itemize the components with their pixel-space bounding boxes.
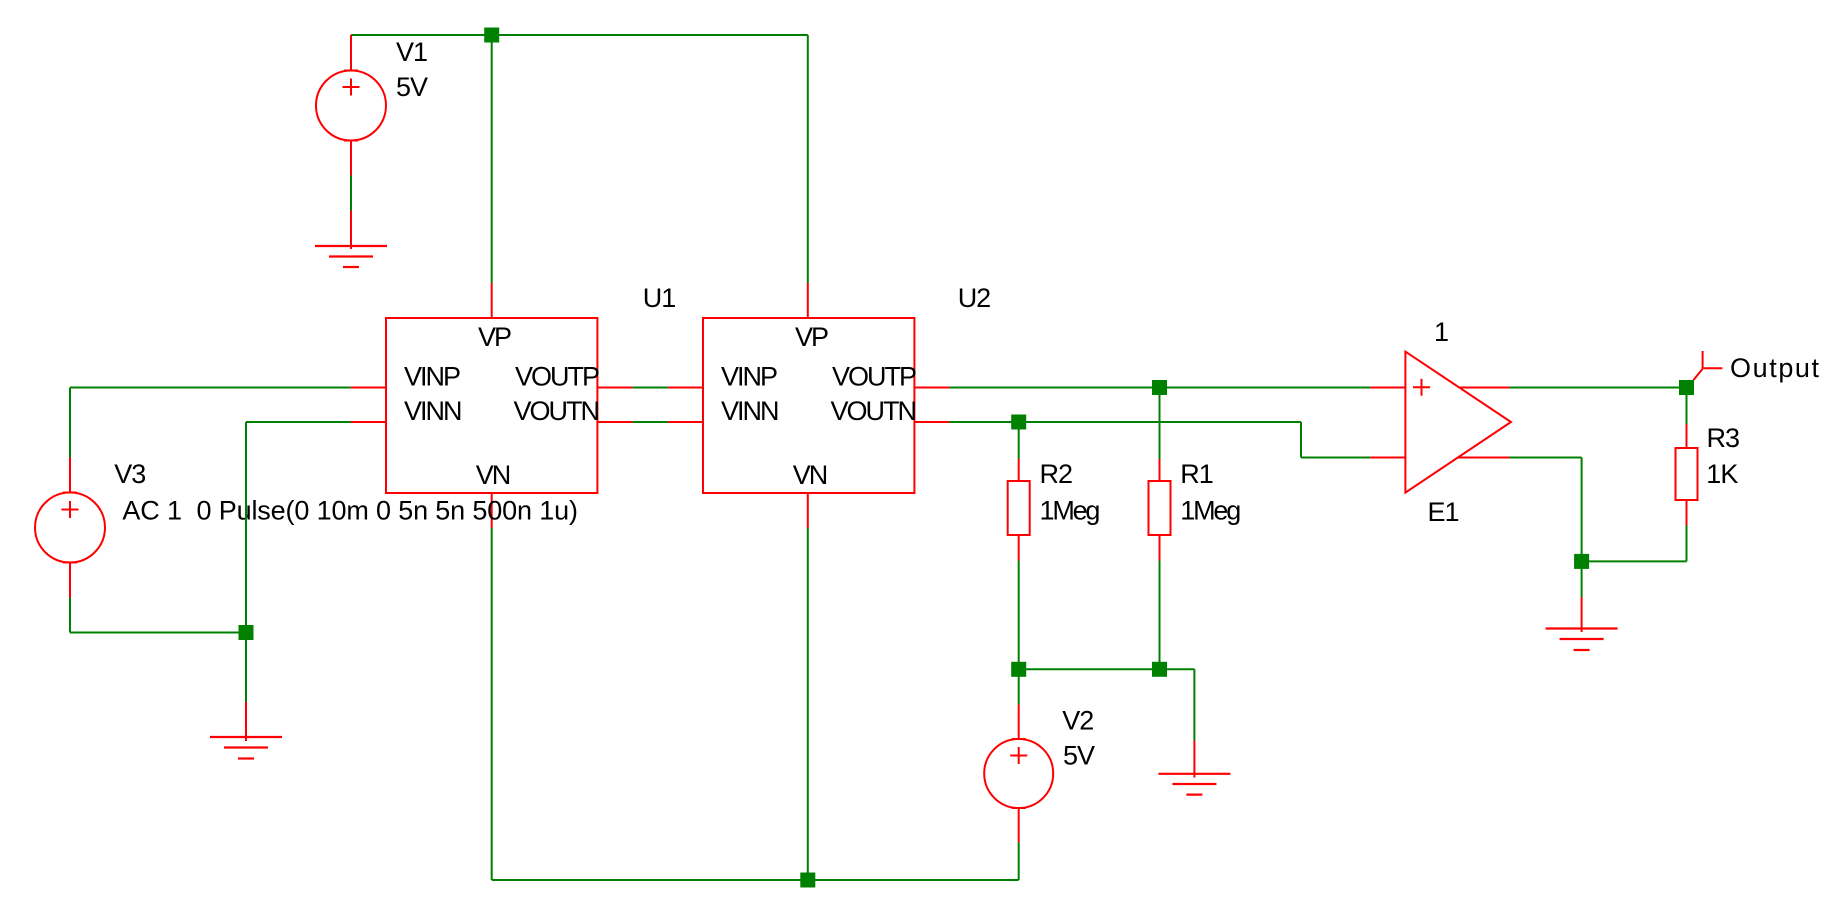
wire U2 VOUTP to E1 plus input	[950, 387, 1371, 389]
wire top net left drop to U1 VP	[491, 35, 493, 283]
wire VINP net drop to V3 plus	[69, 388, 71, 458]
svg-text:5V: 5V	[396, 72, 428, 102]
vcvs E1	[1370, 352, 1511, 493]
wire V1 to ground	[350, 176, 352, 211]
junction V3 net	[239, 625, 254, 640]
wire output node to R3	[1686, 388, 1688, 425]
svg-text:1Meg: 1Meg	[1040, 496, 1100, 526]
voltage source V1	[316, 35, 386, 176]
wire E1 minus output	[1510, 457, 1582, 459]
svg-text:1Meg: 1Meg	[1180, 496, 1240, 526]
wire to ground under E1	[1581, 561, 1583, 597]
svg-text:VINN: VINN	[404, 396, 461, 426]
svg-text:U1: U1	[643, 283, 676, 313]
svg-text:VP: VP	[795, 322, 828, 352]
wire junction to ground	[245, 633, 247, 703]
wire V2 bottom	[1018, 842, 1020, 880]
junction R1 top	[1152, 380, 1167, 395]
ground under V1	[315, 211, 387, 268]
wire U2 VN down	[807, 528, 809, 880]
resistor R1	[1149, 388, 1171, 561]
svg-text:R3: R3	[1707, 423, 1740, 453]
wire V3 bottom	[69, 598, 71, 633]
ground right of V2	[1158, 741, 1230, 795]
svg-text:R1: R1	[1180, 459, 1213, 489]
op-amp block U2	[668, 283, 950, 528]
junction R1 bottom	[1152, 662, 1167, 677]
svg-text:VOUTN: VOUTN	[514, 396, 599, 426]
resistor R3	[1676, 424, 1698, 526]
voltage source V2	[984, 704, 1053, 842]
op-amp block U1	[351, 283, 633, 528]
ground under V3	[210, 702, 282, 759]
svg-text:V3: V3	[114, 459, 145, 489]
svg-text:5V: 5V	[1063, 741, 1095, 771]
svg-text:VINP: VINP	[721, 361, 777, 391]
wire U2 VOUTN right	[950, 421, 1301, 423]
junction bottom net	[800, 873, 815, 888]
voltage source V3	[35, 458, 105, 598]
wire U1 VOUTP to U2 VINP	[633, 387, 668, 389]
svg-text:V2: V2	[1062, 706, 1093, 736]
junction top net	[484, 28, 499, 43]
wire U1 VN down	[491, 528, 493, 880]
wire top net right drop to U2 VP	[807, 35, 809, 283]
junction R2 top	[1011, 415, 1026, 430]
svg-text:E1: E1	[1428, 497, 1459, 527]
wire to E1 minus input	[1301, 457, 1370, 459]
svg-text:1K: 1K	[1706, 459, 1738, 489]
svg-text:VN: VN	[793, 460, 827, 490]
svg-text:V1: V1	[396, 37, 427, 67]
wire R3 bottom	[1686, 526, 1688, 562]
ground under E1	[1546, 597, 1618, 650]
svg-text:Output: Output	[1730, 353, 1821, 383]
wire R1 bottom	[1159, 561, 1161, 670]
wire VOUTN drop	[1300, 422, 1302, 458]
svg-text:R2: R2	[1040, 459, 1073, 489]
svg-text:AC 1 0 Pulse(0 10m 0 5n 5n 50: AC 1 0 Pulse(0 10m 0 5n 5n 500n 1u)	[122, 496, 577, 526]
svg-text:VOUTP: VOUTP	[515, 361, 599, 391]
wire bottom of R3 horizontal	[1582, 560, 1687, 562]
output probe marker	[1694, 351, 1723, 380]
wire U1 VOUTN to U2 VINN	[633, 421, 668, 423]
junction R2 bottom	[1011, 662, 1026, 677]
svg-text:VINP: VINP	[404, 361, 460, 391]
wire bottom of R1 R2 row	[1019, 668, 1195, 670]
wire V2 top	[1018, 669, 1020, 704]
wire E1 minus output drop	[1581, 458, 1583, 562]
svg-text:1: 1	[1434, 317, 1448, 347]
svg-text:VOUTP: VOUTP	[832, 361, 916, 391]
wire E1 output to output node	[1510, 387, 1687, 389]
wire R2 bottom	[1018, 561, 1020, 670]
junction E1 ground net	[1574, 554, 1589, 569]
wire bottom net horizontal	[492, 879, 1019, 881]
svg-text:VN: VN	[476, 460, 510, 490]
wire to U1 VINN horizontal	[246, 421, 351, 423]
wire V3 bottom horizontal	[70, 632, 246, 634]
svg-text:U2: U2	[958, 283, 991, 313]
wire up to U1 VINN	[245, 422, 247, 633]
wire down to ground right of V2	[1193, 669, 1195, 740]
wire top net horizontal	[351, 34, 808, 36]
svg-text:VP: VP	[478, 322, 511, 352]
junction output node	[1679, 380, 1694, 395]
resistor R2	[1008, 422, 1030, 561]
svg-text:VOUTN: VOUTN	[831, 396, 916, 426]
svg-text:VINN: VINN	[721, 396, 778, 426]
wire V3 to U1 VINP	[70, 387, 351, 389]
